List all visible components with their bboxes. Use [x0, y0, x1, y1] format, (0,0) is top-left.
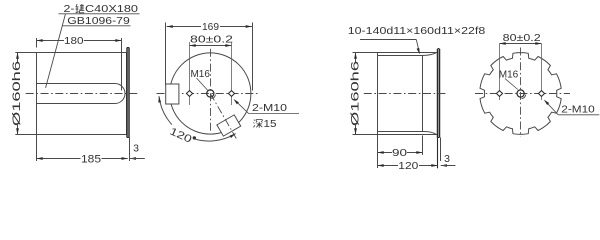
svg-text:80±0.2: 80±0.2: [190, 34, 234, 45]
svg-text:169: 169: [202, 21, 219, 33]
svg-text:10-140d11×160d11×22f8: 10-140d11×160d11×22f8: [348, 25, 486, 37]
svg-text:185: 185: [81, 153, 101, 165]
svg-text:M16: M16: [499, 69, 519, 81]
svg-text:3: 3: [444, 153, 450, 165]
svg-text:M16: M16: [190, 68, 210, 80]
svg-text:15: 15: [264, 119, 278, 130]
svg-text:2-M10: 2-M10: [561, 103, 595, 115]
svg-text:3: 3: [133, 143, 139, 155]
svg-text:2-M10: 2-M10: [252, 102, 287, 114]
svg-text:80±0.2: 80±0.2: [503, 33, 542, 44]
svg-text:120: 120: [398, 160, 418, 172]
svg-text:Ø160h6: Ø160h6: [11, 61, 23, 126]
svg-text:180: 180: [64, 35, 84, 47]
svg-text:90: 90: [392, 147, 407, 159]
svg-text:Ø160h6: Ø160h6: [350, 61, 362, 126]
